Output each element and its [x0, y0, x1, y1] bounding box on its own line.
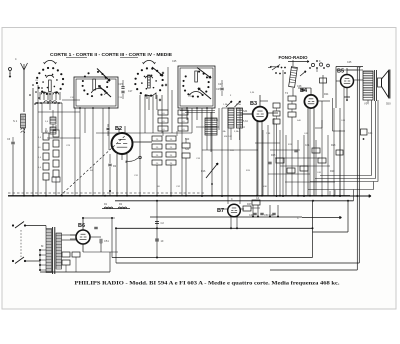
- svg-text:-3A: -3A: [222, 130, 226, 133]
- svg-text:C27: C27: [218, 83, 223, 86]
- svg-text:C48: C48: [297, 85, 302, 88]
- svg-text:R24: R24: [324, 93, 329, 96]
- svg-text:3,3A: 3,3A: [234, 130, 239, 133]
- svg-text:C15: C15: [118, 82, 123, 86]
- svg-text:PHILIPS RADIO - Modd. BI 594: PHILIPS RADIO - Modd. BI 594 A e FI 603 …: [75, 281, 341, 287]
- svg-text:1F: 1F: [161, 239, 164, 243]
- svg-text:C27: C27: [216, 88, 221, 91]
- svg-text:CORTE 1 - CORTE II - CORTE III: CORTE 1 - CORTE II - CORTE III - CORTE I…: [50, 52, 172, 57]
- svg-text:S20: S20: [185, 138, 190, 141]
- svg-text:1,3A: 1,3A: [223, 103, 228, 106]
- svg-text:S 1: S 1: [13, 119, 18, 123]
- svg-text:C44: C44: [368, 132, 373, 135]
- svg-text:V34: V34: [364, 102, 369, 106]
- svg-text:R23: R23: [331, 144, 336, 147]
- svg-text:C: C: [297, 217, 299, 220]
- svg-text:B,3A: B,3A: [236, 103, 241, 106]
- svg-text:B5: B5: [337, 69, 344, 75]
- svg-text:B3: B3: [250, 101, 257, 107]
- svg-text:C25: C25: [172, 60, 177, 63]
- svg-text:5,34: 5,34: [243, 120, 248, 123]
- svg-text:R20: R20: [330, 170, 335, 173]
- svg-text:C51: C51: [104, 239, 109, 243]
- svg-text:FONO-RADIO: FONO-RADIO: [279, 55, 309, 60]
- svg-text:L50: L50: [357, 66, 362, 69]
- svg-text:550: 550: [386, 102, 391, 106]
- svg-text:S34: S34: [243, 110, 248, 113]
- svg-text:C: C: [231, 198, 233, 201]
- svg-text:R47: R47: [247, 203, 252, 206]
- svg-text:C2: C2: [161, 221, 165, 225]
- svg-text:1,34: 1,34: [240, 126, 245, 129]
- svg-text:R18: R18: [271, 154, 276, 157]
- svg-text:B2: B2: [115, 126, 122, 132]
- svg-text:S21: S21: [185, 148, 190, 151]
- svg-text:C45: C45: [347, 61, 352, 64]
- svg-text:B6: B6: [78, 223, 85, 229]
- svg-text:C17: C17: [128, 90, 133, 93]
- svg-text:C41: C41: [305, 144, 310, 147]
